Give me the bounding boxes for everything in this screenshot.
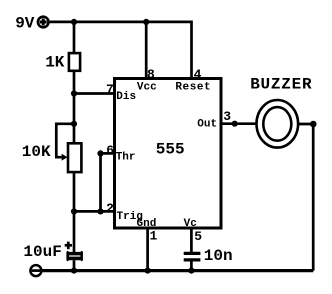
svg-text:3: 3 — [223, 109, 231, 124]
svg-text:555: 555 — [156, 140, 185, 158]
svg-text:10n: 10n — [204, 247, 233, 265]
svg-text:6: 6 — [106, 143, 114, 158]
svg-text:10uF: 10uF — [23, 243, 61, 261]
svg-text:10K: 10K — [22, 143, 51, 161]
svg-text:Vcc: Vcc — [137, 81, 157, 93]
svg-text:4: 4 — [194, 67, 202, 82]
svg-text:8: 8 — [147, 67, 155, 82]
svg-text:BUZZER: BUZZER — [250, 75, 312, 93]
svg-text:2: 2 — [106, 201, 114, 216]
svg-text:1K: 1K — [45, 53, 65, 71]
svg-text:7: 7 — [106, 82, 114, 97]
svg-text:1: 1 — [150, 229, 158, 244]
svg-text:Reset: Reset — [175, 82, 211, 94]
svg-text:9V: 9V — [15, 15, 35, 33]
svg-text:5: 5 — [194, 229, 202, 244]
svg-text:Thr: Thr — [116, 151, 136, 163]
svg-text:Dis: Dis — [116, 91, 136, 103]
svg-text:Out: Out — [197, 118, 217, 130]
